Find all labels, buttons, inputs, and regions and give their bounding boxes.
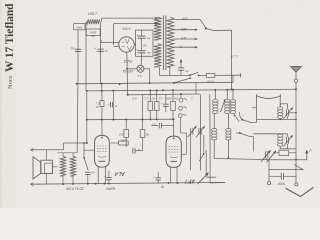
top cap connector 1 (179, 98, 183, 102)
wire tube to frame (134, 44, 135, 46)
svg-text:50: 50 (146, 133, 150, 137)
resistor box E (124, 130, 129, 138)
coil M2b (226, 128, 231, 140)
tube AZ1 electrodes (125, 39, 130, 44)
antenna (291, 66, 302, 72)
svg-text:5000: 5000 (278, 181, 286, 185)
switch band 2 (239, 132, 241, 134)
junction dots bottom (62, 183, 64, 185)
lamp scale (137, 65, 144, 72)
resistor box D (100, 101, 104, 107)
wire unit1 (279, 104, 281, 107)
speaker driver (41, 160, 53, 173)
coil M1b (212, 128, 217, 140)
switch mid coils (221, 101, 225, 112)
svg-text:+: + (94, 46, 96, 50)
transformer primary winding (167, 17, 174, 67)
svg-text:150: 150 (182, 17, 188, 21)
tap 150 (173, 18, 200, 20)
svg-text:110: 110 (181, 36, 187, 40)
resistor box F (140, 130, 145, 138)
svg-text:2M: 2M (119, 133, 125, 137)
svg-text:0,1: 0,1 (152, 123, 157, 127)
resistor box A (148, 102, 153, 111)
svg-text:2M: 2M (174, 96, 180, 100)
wire speaker box leads (46, 150, 48, 160)
resistor out 1 (60, 156, 65, 176)
capacitor elko 1 (138, 35, 146, 37)
capacitor block frame (136, 30, 153, 56)
coil M3 (230, 99, 235, 113)
wire speaker top (31, 148, 34, 151)
arrow HT up (180, 59, 182, 67)
capacitor mid rail (97, 48, 103, 50)
wire mid bus (87, 118, 175, 121)
svg-text:50: 50 (91, 170, 95, 174)
coil M1 (213, 99, 218, 113)
top cap connector 2 (179, 106, 183, 110)
svg-text:1q: 1q (104, 50, 108, 54)
wire AF7 top lead (173, 119, 175, 136)
wire cap centre (140, 30, 142, 36)
transformer secondary winding upper (154, 17, 161, 40)
svg-text:0: 0 (180, 44, 182, 48)
svg-text:6,3: 6,3 (137, 74, 141, 78)
tap 0 (173, 46, 197, 48)
antenna plug (294, 79, 297, 82)
wire v269 (268, 160, 270, 182)
resistor out 2 (70, 156, 75, 176)
svg-text:4μ50V: 4μ50V (105, 186, 115, 190)
svg-text:4 5W: 4 5W (122, 27, 131, 31)
rail 3 heater (128, 93, 200, 96)
svg-text:4q: 4q (147, 37, 151, 41)
capacitor AL4 cathode (85, 171, 90, 173)
terminal circle right (295, 183, 298, 186)
svg-text:125: 125 (181, 27, 187, 31)
svg-text:+: + (136, 48, 138, 52)
wire heater L2 (114, 23, 157, 25)
junction dots rails (86, 90, 88, 92)
wire v200 (199, 94, 201, 170)
switch AL4 (83, 143, 85, 158)
wire antenna down (295, 89, 297, 182)
selector switch (205, 27, 207, 29)
wire unit2 (253, 133, 280, 135)
wire AZ1 bottom lead (126, 52, 129, 95)
trimmer pair mid (190, 128, 192, 135)
padder box (279, 150, 289, 155)
switch HT (189, 74, 191, 76)
wire AF7 legs (169, 167, 171, 183)
tuning cap arrows (265, 151, 267, 158)
wire gang bottom (257, 118, 297, 120)
svg-text:+: + (103, 175, 105, 179)
svg-text:0,5: 0,5 (132, 96, 137, 100)
resistor 3M box (86, 29, 100, 35)
svg-text:AZ1: AZ1 (123, 58, 133, 64)
resistor U917 zigzag (86, 19, 100, 24)
rail 1 (76, 82, 233, 84)
gang link arc (257, 96, 281, 99)
svg-text:0,1: 0,1 (158, 96, 163, 100)
wire lamp leads (127, 68, 137, 70)
svg-text:M 57: M 57 (231, 55, 240, 59)
wire zig left down (85, 22, 87, 91)
svg-text:Netz: Netz (76, 25, 83, 29)
svg-text:+: + (160, 102, 162, 106)
arrow L2 end (155, 22, 159, 24)
wire vR1 (205, 150, 207, 177)
resistor F box (206, 73, 215, 77)
terminal circle left (267, 182, 270, 185)
tap 110 (173, 38, 197, 40)
wire heater L1 (102, 17, 157, 19)
wire vR2 (209, 150, 211, 183)
resistor box B (154, 102, 159, 111)
wire AL4 grid lead (84, 149, 95, 151)
wire AL4 legs (97, 166, 99, 184)
svg-text:2D 91 0,5W: 2D 91 0,5W (65, 187, 84, 191)
svg-text:4μ: 4μ (160, 185, 164, 189)
top cap connector 3 (178, 114, 182, 118)
tube AL4 envelope (95, 135, 110, 167)
bus bottom (31, 183, 34, 187)
wire v88 (86, 91, 88, 143)
wire mains right vertical (231, 30, 233, 89)
resistor box C (171, 102, 176, 111)
capacitor HT (178, 67, 184, 69)
trimmer cap 2 (285, 137, 287, 144)
wire HT line (160, 74, 190, 76)
wire tuning links (266, 158, 268, 159)
speaker cone (33, 157, 41, 179)
capacitor near AL4 (132, 148, 134, 154)
svg-text:U917: U917 (88, 12, 97, 16)
tube AL4 interior (97, 146, 107, 152)
title Nora W17 Tiefland (4, 3, 16, 89)
wire resistor tops (58, 152, 78, 154)
wire transformer bottom to line (159, 67, 161, 75)
wire frame to lamp (140, 56, 142, 65)
wire trimmer drops (189, 135, 191, 171)
svg-text:W 17 Tiefland: W 17 Tiefland (4, 3, 16, 72)
capacitor elko AF7 cathode (156, 177, 161, 179)
svg-text:+: + (136, 33, 138, 37)
svg-text:5q: 5q (71, 46, 75, 50)
svg-text:Nora: Nora (7, 76, 14, 89)
wire step (64, 142, 87, 144)
svg-text:6q: 6q (185, 70, 189, 74)
wire v113 (112, 91, 114, 120)
capacitor on left rail (75, 48, 81, 50)
svg-text:4V0,1A: 4V0,1A (123, 69, 133, 73)
tap 125 (173, 29, 197, 31)
svg-text:50: 50 (151, 96, 155, 100)
capacitor AF7 grid (149, 0, 151, 90)
tube AF7 interior (169, 147, 180, 153)
switch on rail 1 (173, 82, 175, 84)
coil ant 2 (278, 134, 283, 146)
capacitor elko grid (102, 104, 109, 106)
wire zig right down (100, 22, 102, 84)
wire coil drops (214, 90, 216, 99)
svg-text:+: + (107, 102, 109, 106)
wire mains left vertical (77, 30, 79, 84)
transformer core (162, 16, 164, 71)
tube AZ1 envelope (119, 37, 134, 52)
svg-text:0,1: 0,1 (144, 96, 149, 100)
tube AF7 envelope (166, 136, 181, 167)
svg-text:300: 300 (120, 138, 125, 142)
wire line 159 (269, 159, 307, 161)
resistor 300 box (119, 141, 129, 145)
svg-text:+: + (153, 175, 155, 179)
pot arrow (198, 173, 209, 185)
svg-text:4q: 4q (147, 51, 151, 55)
wire v196 (195, 83, 197, 95)
svg-text:F3/9: F3/9 (207, 80, 213, 84)
aerial terminal arrow (306, 150, 308, 160)
transformer secondary winding lower (154, 44, 161, 68)
junctions mid bus (101, 119, 103, 121)
switch earth (301, 169, 303, 171)
wire AF7 grid frame (179, 118, 181, 133)
wire gang left (256, 96, 258, 123)
rail 2 (87, 89, 296, 91)
wire AZ1 left leads (102, 42, 119, 44)
coil M2 (225, 99, 230, 113)
arrow L1 end (155, 17, 159, 19)
svg-text:AL4: AL4 (115, 170, 126, 176)
capacitor elko AL4 (106, 177, 112, 179)
switch mid coils 2 (235, 116, 240, 122)
capacitor elko 2 (138, 50, 146, 52)
switch bottom right (199, 154, 203, 161)
capacitor elko mid (163, 103, 169, 105)
coil ant 1 (278, 107, 283, 119)
capacitor 5000 (269, 175, 281, 177)
switch band 1 (241, 119, 243, 121)
wire line 169 (269, 169, 304, 171)
wire gang right (279, 96, 281, 107)
svg-text:50: 50 (143, 44, 147, 48)
trimmer cap 1 (285, 109, 287, 116)
wire coil bottoms to gang (214, 159, 269, 160)
Netz box (74, 24, 85, 30)
ground symbol (286, 187, 314, 196)
wire v100 mid (101, 84, 103, 101)
wire v209 (209, 94, 211, 150)
